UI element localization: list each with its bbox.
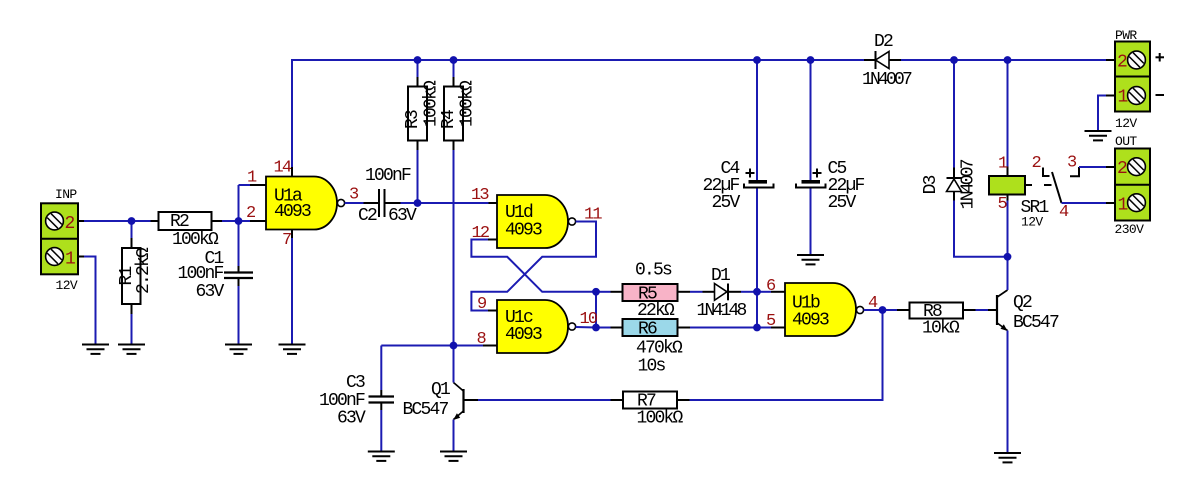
svg-text:12V: 12V <box>1021 215 1043 230</box>
svg-text:100kΩ: 100kΩ <box>636 409 683 429</box>
svg-text:2: 2 <box>246 204 255 223</box>
svg-text:12V: 12V <box>1115 116 1137 131</box>
svg-text:D2: D2 <box>874 32 893 52</box>
svg-text:25V: 25V <box>711 193 740 213</box>
svg-text:63V: 63V <box>337 409 366 429</box>
svg-text:C2: C2 <box>358 206 377 226</box>
svg-text:1N4148: 1N4148 <box>696 301 746 321</box>
svg-text:1: 1 <box>65 250 75 270</box>
svg-text:R6: R6 <box>638 320 657 340</box>
svg-text:470kΩ: 470kΩ <box>636 339 683 359</box>
svg-text:14: 14 <box>274 159 292 178</box>
svg-text:Q1: Q1 <box>431 380 450 400</box>
svg-text:4093: 4093 <box>505 221 542 241</box>
svg-text:1: 1 <box>1118 88 1128 108</box>
svg-text:R2: R2 <box>170 212 189 232</box>
svg-text:C3: C3 <box>346 373 365 393</box>
svg-text:R3: R3 <box>403 110 423 129</box>
svg-text:2: 2 <box>65 214 75 234</box>
svg-text:2: 2 <box>1032 154 1041 173</box>
svg-text:2: 2 <box>1117 53 1127 73</box>
svg-text:63V: 63V <box>388 206 417 226</box>
svg-text:4093: 4093 <box>505 325 542 345</box>
svg-text:63V: 63V <box>195 282 224 302</box>
svg-text:2: 2 <box>1117 159 1127 179</box>
svg-text:1N4007: 1N4007 <box>862 70 912 90</box>
svg-text:0.5s: 0.5s <box>635 261 672 281</box>
svg-text:25V: 25V <box>828 193 857 213</box>
svg-text:1N4007: 1N4007 <box>959 159 979 209</box>
svg-text:100kΩ: 100kΩ <box>172 230 219 250</box>
svg-text:D1: D1 <box>711 266 730 286</box>
svg-text:7: 7 <box>282 231 291 250</box>
svg-text:D3: D3 <box>921 175 941 194</box>
svg-text:OUT: OUT <box>1115 134 1137 149</box>
svg-text:BC547: BC547 <box>403 400 449 420</box>
svg-text:INP: INP <box>55 187 77 202</box>
svg-text:Q2: Q2 <box>1013 293 1032 313</box>
svg-text:10s: 10s <box>637 357 665 377</box>
svg-text:13: 13 <box>471 186 489 205</box>
svg-text:BC547: BC547 <box>1013 313 1059 333</box>
svg-text:230V: 230V <box>1115 222 1145 237</box>
svg-text:12V: 12V <box>56 278 78 293</box>
svg-text:100nF: 100nF <box>365 166 411 186</box>
svg-text:2.2kΩ: 2.2kΩ <box>134 247 154 294</box>
svg-text:4093: 4093 <box>792 311 829 331</box>
svg-text:100kΩ: 100kΩ <box>458 80 478 127</box>
svg-text:R4: R4 <box>439 110 459 129</box>
svg-text:1: 1 <box>1118 196 1128 216</box>
svg-text:10kΩ: 10kΩ <box>922 319 960 339</box>
svg-text:4093: 4093 <box>274 202 311 222</box>
svg-text:100nF: 100nF <box>177 264 223 284</box>
svg-text:PWR: PWR <box>1115 28 1137 43</box>
